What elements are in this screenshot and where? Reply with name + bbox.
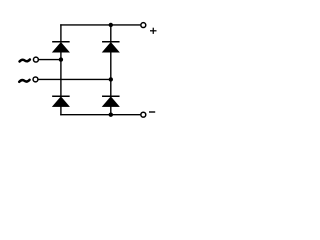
diode D4 (bottom-right, cathode up) bbox=[102, 96, 120, 106]
terminal - (open circle) bbox=[141, 112, 146, 117]
label - bbox=[149, 111, 155, 113]
wire AC1 input lead bbox=[39, 59, 61, 61]
diode D2 (top-right, cathode up) bbox=[102, 42, 120, 52]
wire D3 anode to bottom rail bbox=[60, 106, 62, 115]
label ~ (AC2) bbox=[19, 80, 29, 82]
wire right column top (top rail to D2 cathode) bbox=[110, 25, 112, 42]
wire D2 anode to AC2 node bbox=[110, 52, 112, 80]
node AC2 junction bbox=[109, 77, 113, 81]
node bottom rail junction bbox=[109, 113, 113, 117]
wire AC2 input lead bbox=[38, 78, 110, 80]
label ~ (AC1) bbox=[20, 60, 30, 62]
terminal AC2 (open circle) bbox=[33, 77, 38, 82]
terminal + (open circle) bbox=[141, 23, 146, 28]
node top rail junction bbox=[109, 23, 113, 27]
wire D4 anode to bottom rail bbox=[110, 106, 112, 115]
wire left column middle (AC1 node down, crosses AC2 lead) bbox=[60, 60, 62, 96]
diode D1 (top-left, cathode up) bbox=[52, 42, 70, 52]
label + bbox=[150, 28, 157, 34]
terminal AC1 (open circle) bbox=[33, 57, 38, 62]
node AC1 junction bbox=[59, 57, 63, 61]
wire AC2 node to D4 cathode bbox=[110, 79, 112, 95]
wire D1 anode to AC1 node bbox=[60, 52, 62, 60]
wire left column top (top rail to D1 cathode) bbox=[60, 24, 62, 41]
wire bottom rail (- bus) bbox=[60, 114, 140, 116]
wire top rail (+ bus) bbox=[60, 24, 140, 26]
diode D3 (bottom-left, cathode up) bbox=[52, 96, 70, 106]
